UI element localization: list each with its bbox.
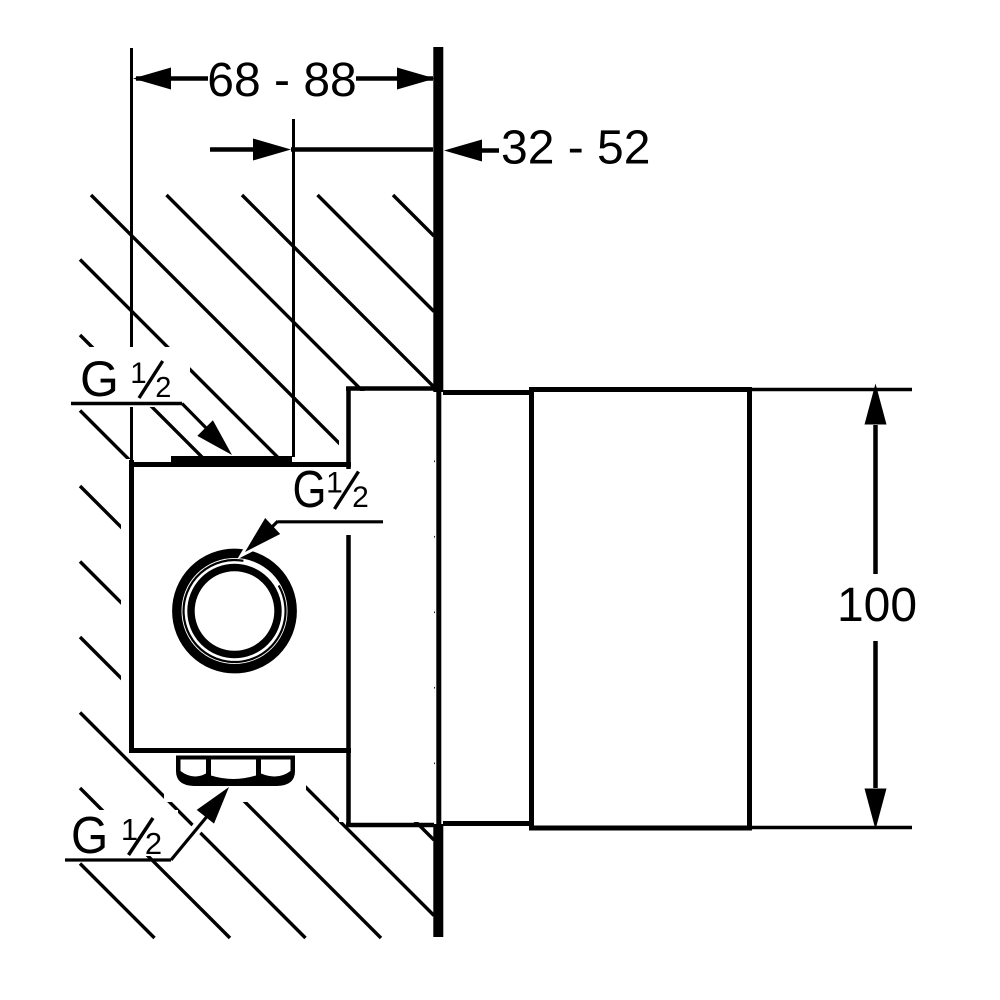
svg-text:G: G bbox=[80, 351, 119, 407]
svg-text:2: 2 bbox=[155, 372, 171, 404]
svg-text:2: 2 bbox=[352, 481, 369, 514]
svg-text:100: 100 bbox=[837, 579, 917, 632]
svg-text:32 - 52: 32 - 52 bbox=[501, 122, 650, 175]
svg-text:G: G bbox=[293, 462, 327, 519]
svg-text:1: 1 bbox=[130, 357, 146, 390]
svg-text:68 - 88: 68 - 88 bbox=[207, 54, 356, 107]
svg-text:2: 2 bbox=[145, 826, 162, 861]
svg-text:G: G bbox=[71, 806, 108, 864]
svg-text:1: 1 bbox=[326, 467, 343, 500]
